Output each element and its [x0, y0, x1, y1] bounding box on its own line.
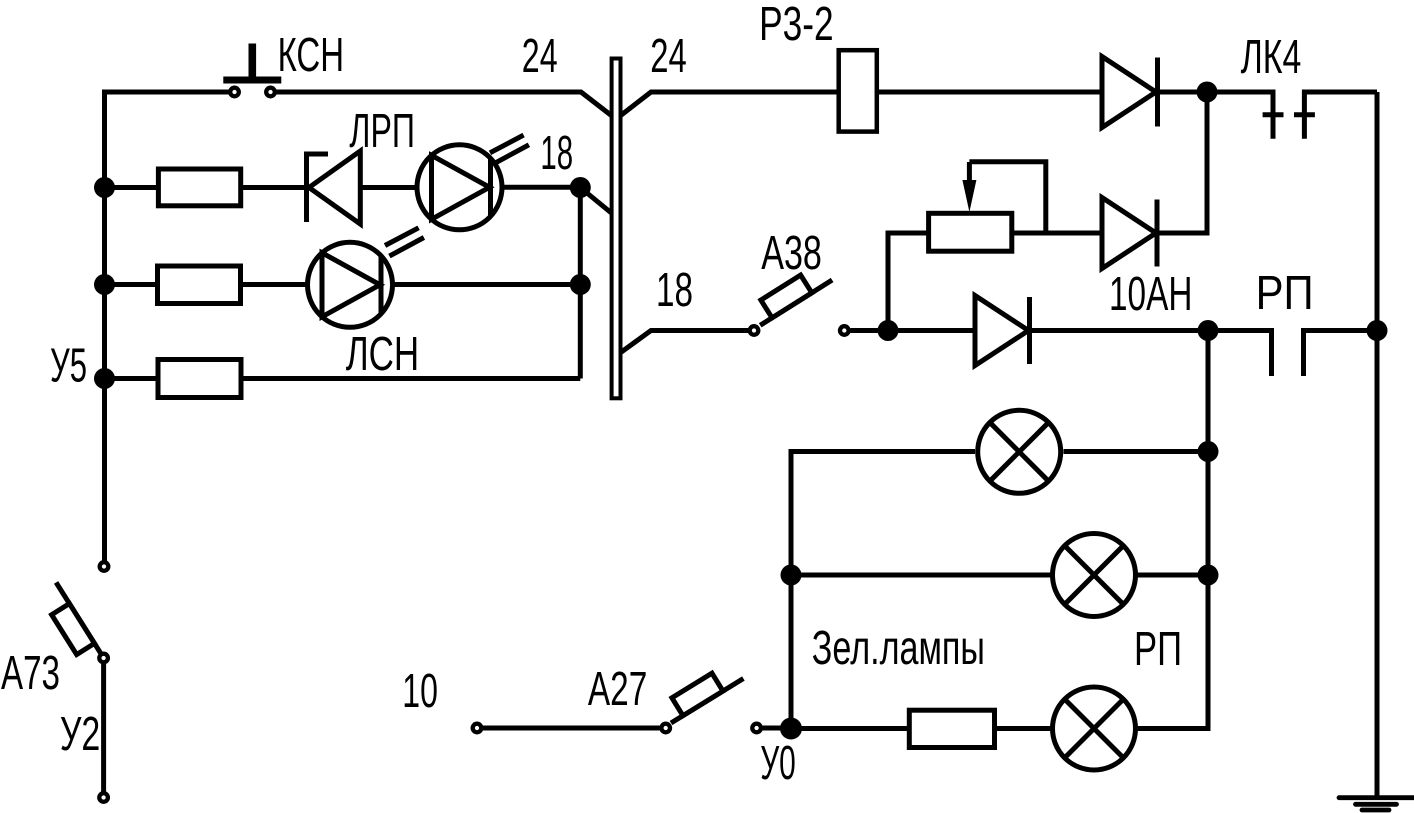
svg-text:10АН: 10АН — [1109, 268, 1192, 321]
svg-text:24: 24 — [522, 30, 558, 83]
wire: lamp row1 with left vertical of lamp group — [791, 452, 975, 729]
lamp LRP circle — [417, 145, 502, 230]
diode LRP cathode bar with top hook — [307, 154, 329, 222]
pushbutton KCH actuator bar — [223, 77, 281, 84]
lamp XL2 circle — [1053, 534, 1136, 617]
svg-text:А27: А27 — [588, 663, 647, 716]
svg-text:ЛСН: ЛСН — [346, 328, 420, 381]
wire: row3 (U5) rail to resistor R3 — [105, 376, 159, 381]
wire: 10AN branch cathode to top node — [1157, 92, 1207, 233]
node: A38 branch junction — [878, 320, 899, 341]
fuse A27 body — [672, 673, 723, 716]
connector bar (terminal strip) — [612, 59, 621, 399]
potentiometer wiper stem — [967, 162, 972, 184]
fuse A38 body — [761, 275, 812, 318]
svg-text:У0: У0 — [760, 737, 796, 790]
diode D1 triangle — [1102, 57, 1156, 128]
node: row2 right — [570, 274, 591, 295]
node: row1 right — [570, 177, 591, 198]
wire: A27 to U0 node — [763, 726, 781, 731]
svg-text:А38: А38 — [761, 227, 822, 280]
diode 10AN cathode bar — [1155, 200, 1160, 267]
node: lamp row2 right — [1198, 565, 1219, 586]
wire: R3 to vertical link — [241, 376, 580, 381]
wire: 18 branch from connector bar to A38 — [620, 331, 749, 354]
node: right rail at RP — [1367, 320, 1388, 341]
lamp LRP inner cathode chord — [488, 158, 493, 216]
wire: R1 to diode LRP — [241, 185, 306, 190]
lamp XL1 circle — [978, 410, 1061, 493]
lamp LSN circle — [308, 242, 393, 327]
ground symbol bar 3 — [1362, 808, 1389, 813]
node: top right after diode D1 — [1197, 82, 1218, 103]
wire: lamp row2 — [791, 573, 1051, 578]
contact LK4 right lead and tick — [1304, 92, 1377, 139]
contact RP right lead — [1304, 331, 1378, 377]
svg-text:Зел.лампы: Зел.лампы — [812, 622, 985, 675]
wire: from terminal 10 to switch A27 — [483, 726, 660, 731]
contact LK4 left tick — [1263, 112, 1284, 117]
fuse A73 body — [52, 604, 95, 655]
resistor R1 — [158, 169, 240, 206]
svg-text:10: 10 — [402, 665, 438, 718]
lamp XL1 cross — [989, 422, 1049, 482]
diode D1 cathode bar — [1155, 58, 1160, 127]
node: lamp row2 left — [781, 565, 802, 586]
svg-text:РП: РП — [1256, 267, 1314, 320]
lamp LSN inner cathode chord — [379, 256, 384, 314]
wire: top bus from KCH button to connector bar (with kink) — [277, 92, 613, 116]
resistor R4 — [909, 710, 994, 747]
svg-text:У2: У2 — [60, 708, 100, 761]
switch A38 left terminal circle — [750, 326, 759, 335]
wire: A73 to U2 terminal — [101, 664, 106, 792]
wire: potentiometer left lead down to A38 node — [888, 233, 929, 331]
wire: R4 to lamp XL3 — [995, 726, 1051, 731]
svg-text:18: 18 — [540, 127, 573, 180]
wire: lamp LSN to node — [393, 282, 581, 287]
resistor R3 — [158, 360, 241, 398]
wire: A38 to diode D3 — [850, 328, 975, 333]
svg-text:КСН: КСН — [278, 29, 344, 82]
lamp LSN inner triangle — [322, 253, 380, 317]
wire: lamp LRP to node — [502, 185, 580, 190]
diode 10AN triangle — [1102, 198, 1156, 269]
wire: lamp XL1 to right vertical — [1064, 449, 1209, 454]
pushbutton KCH stem — [249, 44, 257, 81]
lamp XL3 cross — [1064, 699, 1124, 759]
svg-text:У5: У5 — [50, 340, 87, 393]
wire: vertical from low node down through lamp rows — [1138, 331, 1209, 729]
diode D3 triangle — [975, 296, 1029, 366]
switch A27 left terminal circle — [661, 724, 670, 733]
wire: row2 left rail to resistor R2 — [105, 282, 158, 287]
ground symbol bar 2 — [1356, 802, 1397, 807]
svg-text:24: 24 — [650, 30, 687, 83]
switch A73 blade — [56, 582, 102, 655]
wire: lamp XL2 to right vertical — [1138, 573, 1209, 578]
switch A27 right terminal circle — [752, 724, 761, 733]
svg-text:ЛРП: ЛРП — [349, 105, 415, 158]
wire: wiper loop over to right lead — [969, 162, 1045, 233]
potentiometer wiper arrowhead — [962, 180, 976, 212]
switch A38 right terminal circle — [840, 326, 849, 335]
resistor R2 — [158, 266, 241, 304]
svg-text:РП: РП — [1134, 623, 1182, 676]
diode D3 cathode bar — [1027, 297, 1032, 364]
lamp LRP double dash mark — [490, 135, 529, 163]
pushbutton KCH left terminal circle — [230, 88, 239, 97]
lamp LRP inner triangle — [432, 155, 490, 219]
wire: row1 left rail to resistor R1 — [105, 185, 159, 190]
potentiometer resistor body — [929, 213, 1012, 251]
node: U0 — [780, 718, 802, 740]
wire: diode D3 to RP contact left lead — [1030, 331, 1272, 377]
wire: R2 to lamp LSN — [241, 282, 308, 287]
lamp LSN double dash mark — [385, 228, 424, 256]
svg-text:18: 18 — [656, 264, 693, 317]
contact LK4 right tick — [1294, 112, 1315, 117]
pushbutton KCH right terminal circle — [266, 88, 275, 97]
node: U5 at left rail — [94, 368, 115, 389]
wire: relay coil to diode D1 — [877, 90, 1102, 95]
wire: diode LRP to lamp LRP — [360, 185, 417, 190]
svg-text:Р3-2: Р3-2 — [759, 0, 834, 51]
node: row2 at left rail — [94, 274, 115, 295]
node: low mid before RP contact — [1198, 320, 1219, 341]
wire: U0 node to resistor R4 — [791, 726, 909, 731]
node: lamp row1 right — [1198, 441, 1219, 462]
wire: vertical link x=580 from row1 to row3 — [578, 188, 583, 379]
relay coil R3-2 — [839, 50, 877, 131]
terminal U2 circle — [99, 793, 108, 802]
switch A73 lower terminal circle — [99, 654, 108, 663]
lamp XL3 circle — [1053, 687, 1136, 770]
ground symbol bar 1 — [1339, 795, 1414, 800]
wire: diode D1 cathode to LK4 contact left lead — [1158, 92, 1273, 139]
switch A38 blade — [760, 280, 832, 325]
svg-text:ЛК4: ЛК4 — [1241, 31, 1302, 84]
wire: left rail with top corner to KCH button — [105, 92, 230, 561]
svg-text:А73: А73 — [1, 647, 60, 700]
diode LRP triangle (pointing left) — [309, 151, 360, 224]
switch A73 upper terminal circle — [100, 562, 109, 571]
wire: diagonal from node row1 to connector bar — [580, 188, 612, 214]
wire: potentiometer to diode 10AN — [1012, 231, 1102, 236]
wire: right rail down to ground — [1375, 92, 1380, 797]
switch A27 blade — [671, 678, 743, 723]
lamp XL2 cross — [1064, 545, 1124, 605]
terminal 10 circle — [473, 724, 482, 733]
wire: top bus right of connector bar to relay coil — [620, 92, 839, 116]
node: row1 at left rail — [94, 177, 115, 198]
